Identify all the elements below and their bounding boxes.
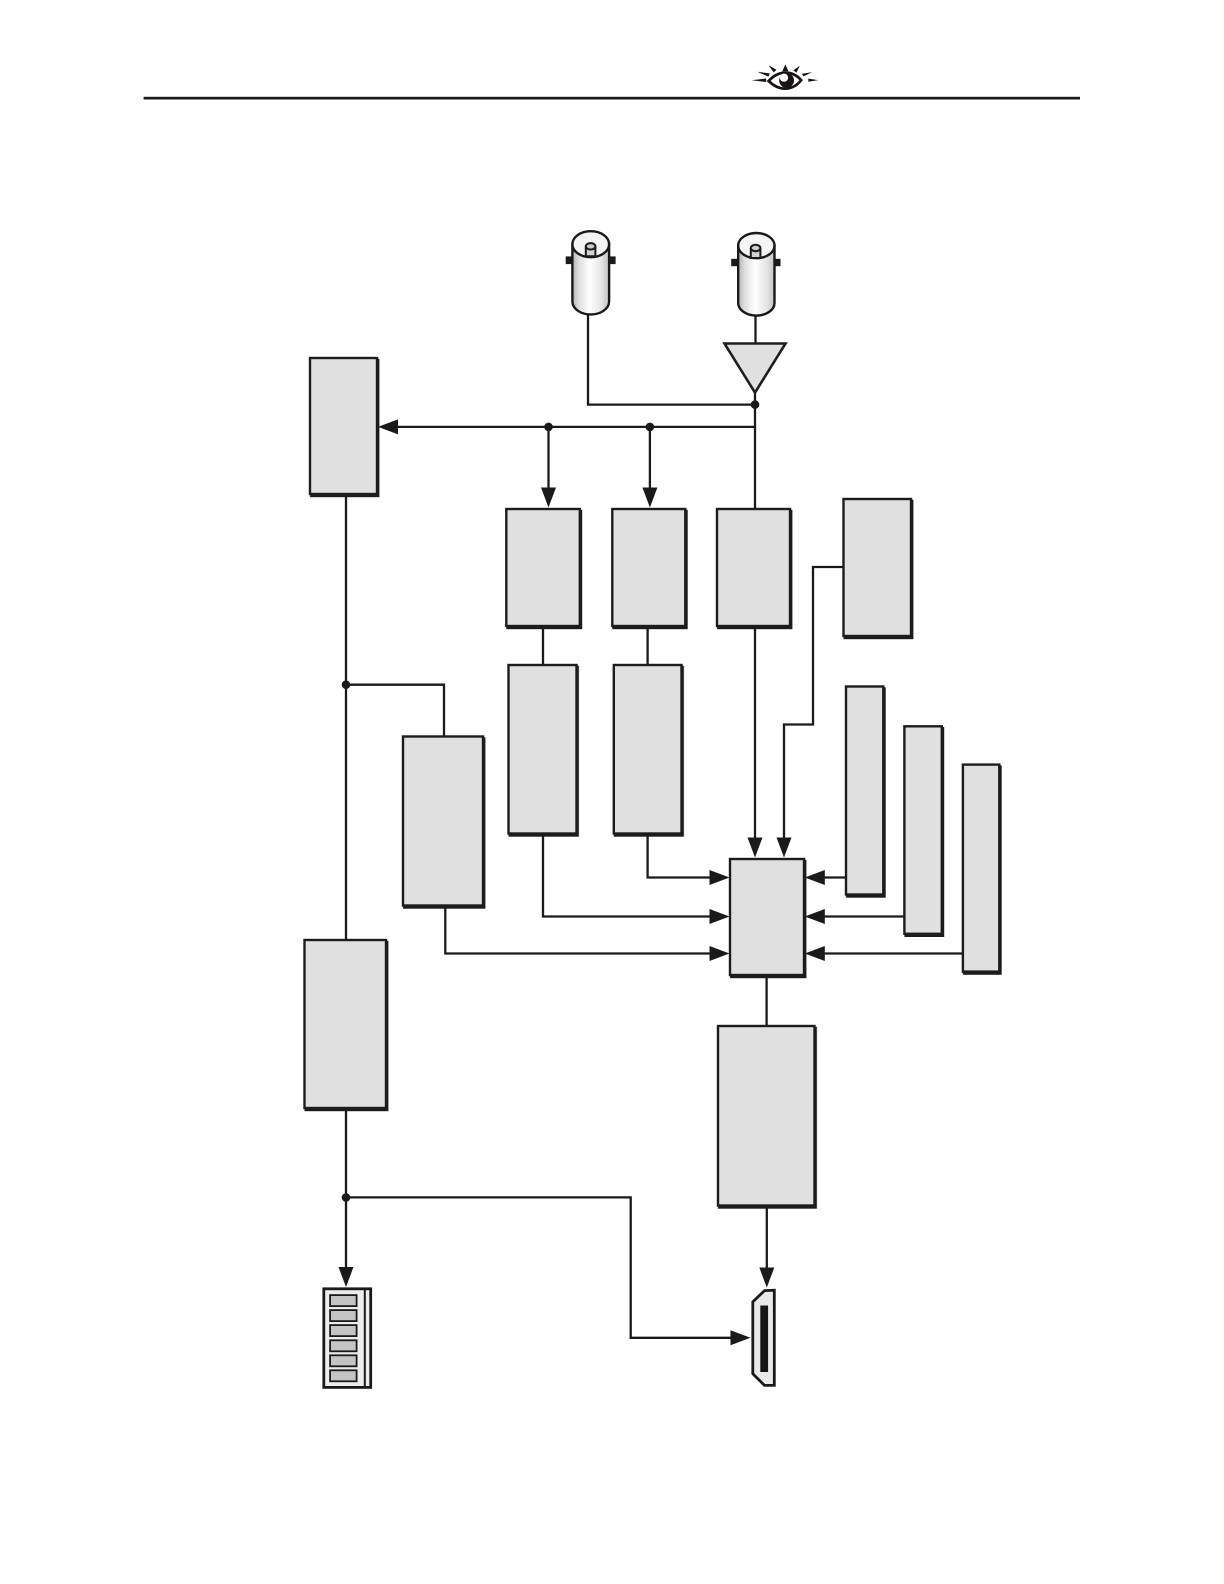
battery pack	[324, 1289, 371, 1388]
junction dots	[342, 400, 760, 1201]
node: bus/box2	[646, 423, 655, 432]
wire: box2 to M2	[646, 626, 648, 665]
node: left column / connector branch	[342, 1193, 351, 1202]
antenna ANT2 cylinder	[731, 233, 780, 316]
node: bus/box1	[544, 423, 553, 432]
block box3	[717, 509, 790, 626]
arrow into connector left	[731, 1330, 751, 1345]
wire: antenna ANT2 lead into triangle	[754, 310, 756, 344]
arrow into central box top 1	[748, 838, 763, 858]
wire: R3 to central box	[825, 952, 963, 954]
wire: junction branch to connector	[346, 1197, 731, 1337]
block L1	[310, 358, 377, 494]
wire: right box feed to central box top	[784, 567, 844, 839]
arrows into central box right	[805, 870, 825, 885]
block box1	[506, 509, 580, 626]
wire: R1 to central box	[825, 876, 847, 878]
wire: M1 to central box	[543, 834, 710, 917]
block central C	[730, 859, 804, 975]
arrow into central box top 2	[777, 838, 792, 858]
node: left column / L2 branch	[342, 680, 351, 689]
arrowheads	[339, 419, 825, 1345]
block right RB	[844, 499, 912, 636]
wire: branch into L2 top	[346, 685, 444, 737]
block L3	[305, 940, 387, 1108]
wire: antenna ANT1 lead down and right to node	[588, 308, 755, 405]
wire: box1 to M1	[542, 626, 544, 665]
wire: central box to bottom box	[765, 975, 767, 1026]
block M2	[614, 665, 682, 834]
block L2	[403, 737, 483, 906]
arrows into central box left	[710, 870, 730, 885]
arrow into battery	[339, 1267, 354, 1287]
logo eye	[752, 64, 819, 88]
wire: R2 to central box	[825, 915, 905, 917]
block R2	[904, 726, 941, 934]
wire: L2 to central box	[445, 906, 710, 954]
wire: main bus to left box	[397, 426, 756, 428]
wire: bottom box to connector	[766, 1206, 768, 1268]
wire: left column vertical	[345, 494, 347, 940]
antenna ANT1 cylinder	[566, 231, 616, 314]
block box2	[612, 509, 685, 626]
amplifier triangle	[725, 344, 786, 393]
arrow into connector top	[759, 1268, 774, 1288]
arrow into box2	[642, 488, 657, 508]
block bottom BB	[718, 1026, 815, 1206]
wire: L3 down to junction and battery	[345, 1108, 347, 1267]
block M1	[509, 665, 577, 834]
wire: M2 to central box	[648, 834, 710, 878]
block R1	[846, 687, 883, 895]
arrow into box1	[541, 488, 556, 508]
node: antenna join	[751, 400, 760, 409]
wire: branch down to box2	[649, 427, 651, 489]
wire: branch down to box1	[547, 427, 549, 489]
arrow into left box	[378, 419, 398, 434]
block R3	[963, 765, 999, 972]
wire: main vertical from triangle tip down to central box	[754, 393, 756, 839]
header rule	[144, 97, 1080, 100]
connector	[753, 1290, 775, 1385]
